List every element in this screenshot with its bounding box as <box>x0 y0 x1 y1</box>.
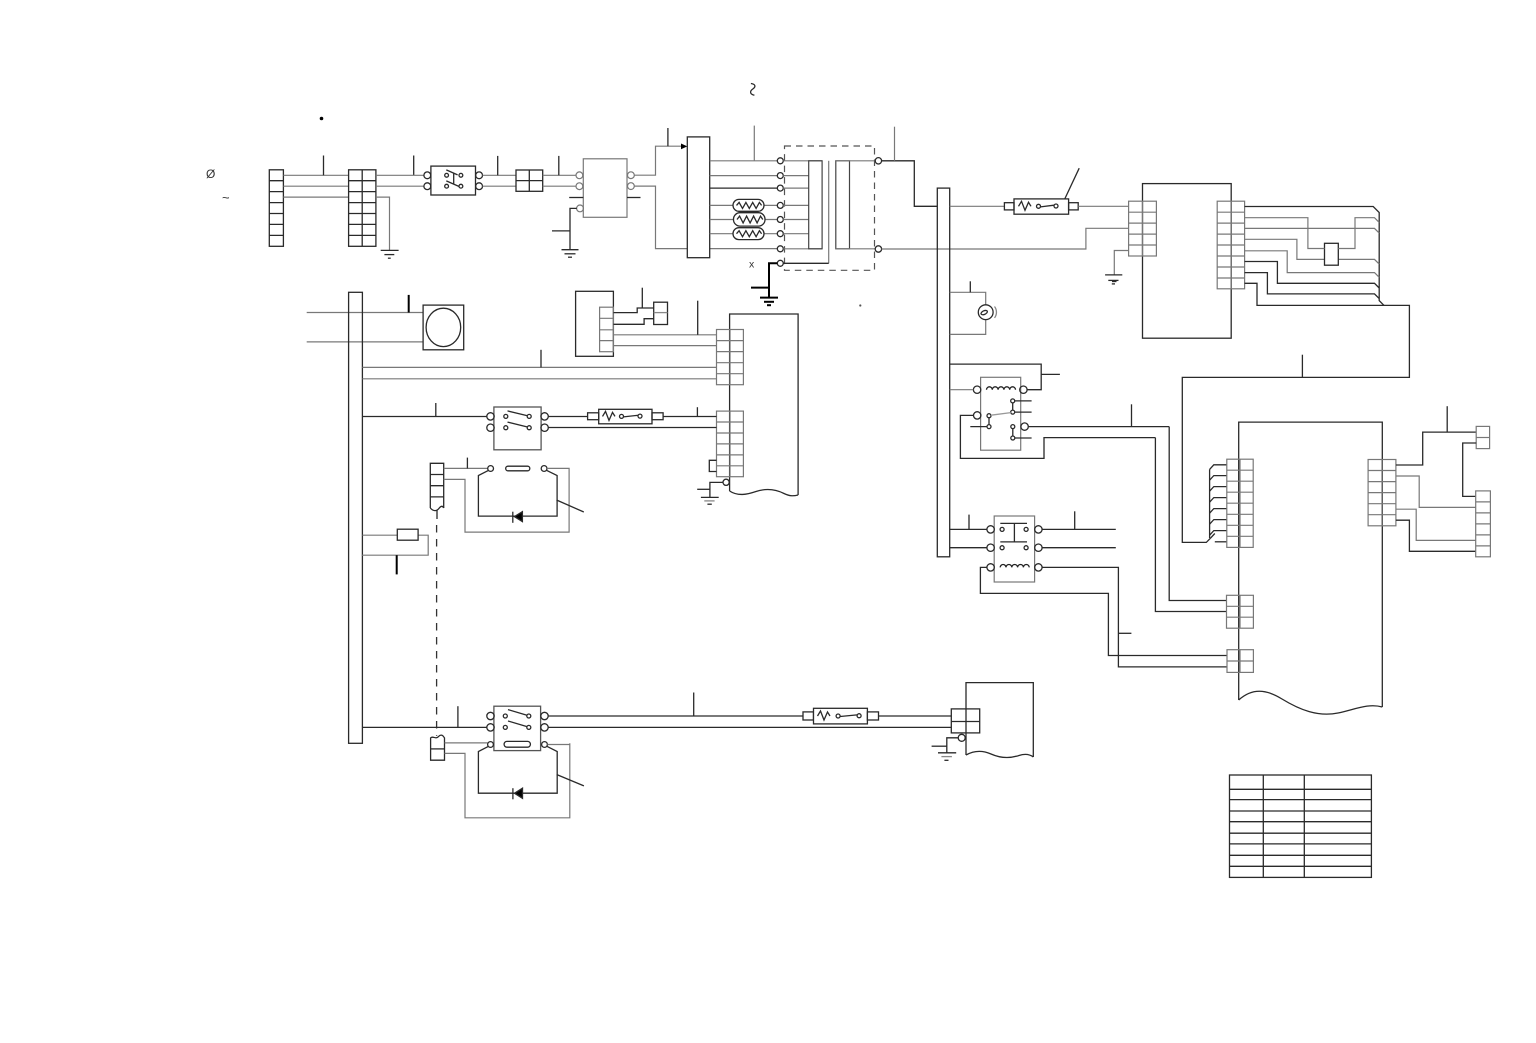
B5 lower strip LS5 <box>717 411 744 477</box>
stub tick <box>894 127 896 161</box>
wire TS2 to ground <box>376 197 390 250</box>
dash mark <box>1112 281 1117 283</box>
upper-left unit B6 <box>576 291 614 356</box>
wire bus to K1 coil <box>950 389 974 391</box>
wire RS4 row1 to connector C7 <box>1396 432 1476 465</box>
stub tick <box>466 458 468 469</box>
wire TS2 to switch S1 row2 <box>376 185 424 187</box>
B4 connector C6 <box>1227 650 1253 673</box>
wire secondary top to bus <box>882 161 938 207</box>
secondary winding bars <box>836 161 876 249</box>
wire bus to switch S2 <box>362 416 487 418</box>
tap stub <box>697 488 710 490</box>
clutch solenoid CL2 <box>478 741 557 793</box>
wire fuse to connector C9 <box>879 715 952 717</box>
stub tick <box>696 407 698 416</box>
strip tail <box>436 511 438 520</box>
bus bar BB2 <box>349 292 363 743</box>
wire filter to module B1 row1 <box>543 174 576 176</box>
stub tick <box>435 403 437 417</box>
connector C8 <box>1476 491 1491 557</box>
harness wire W1 <box>1245 207 1384 306</box>
actuation slant line <box>557 500 584 512</box>
heater resistor H1 <box>733 199 764 211</box>
tap stub <box>932 745 947 747</box>
dark row wire <box>710 187 778 189</box>
wire S3 row2 to connector C9 <box>548 726 951 728</box>
page flag PF1 outline <box>966 683 1033 757</box>
wire B6 row1 to connector C10 <box>613 308 653 313</box>
transformer terminal board B2 <box>687 137 709 258</box>
stub tick <box>457 706 459 727</box>
B4 connector C5 <box>1227 595 1254 628</box>
ground symbol G2 <box>562 250 579 258</box>
tap stub <box>552 230 570 232</box>
K2 coil wire left to connector <box>980 567 1227 655</box>
wire K1 output down to connector C5 row1 <box>1169 427 1226 601</box>
ground symbol G4 <box>1105 275 1122 284</box>
stub tick <box>1131 404 1133 426</box>
wire S2 row2 to B5 strip row2 <box>548 427 716 429</box>
B5 upper strip US5 <box>717 330 744 385</box>
reference table <box>1230 775 1372 877</box>
long wire bus to B5 strip row1 <box>362 366 716 368</box>
wire B1 pin to ground G2 <box>570 208 577 249</box>
heater resistor H2 <box>734 213 766 226</box>
K2 contact output row1 <box>1042 528 1116 530</box>
relay K2 contacts <box>987 523 1042 551</box>
jumper body <box>397 529 418 540</box>
wire RS4 row6 to C8 row6 <box>1396 520 1476 551</box>
bottom feed wire <box>362 726 487 728</box>
indicator lamp LP1 <box>978 305 996 320</box>
squiggle mark <box>751 84 755 96</box>
wire bus to breaker <box>950 205 1005 207</box>
junction dot <box>320 117 324 121</box>
relay K1 output wire <box>1028 426 1169 428</box>
B3 right connector strip <box>1217 201 1244 289</box>
harness wire W4 <box>1245 239 1380 264</box>
wire K1 return down to connector C5 row2 <box>1155 438 1226 612</box>
svg-text:x: x <box>749 259 755 271</box>
wire TS1 to TS2 row3 <box>283 196 348 198</box>
relay K1 contacts <box>970 399 1031 440</box>
terminal strip TS1 <box>269 170 283 247</box>
secondary row wires <box>710 161 778 234</box>
line filter FL1 <box>516 170 543 191</box>
wire bus to K2 contact row2 <box>950 547 987 549</box>
motor M1 <box>423 305 464 350</box>
secondary pin circles <box>875 158 881 164</box>
CL1 return loop <box>444 468 569 532</box>
main board B4 outline <box>1239 422 1383 707</box>
stub tick <box>497 156 499 175</box>
terminal strip TS2 <box>349 170 376 247</box>
stub tick <box>641 288 643 308</box>
svg-text:Ø: Ø <box>206 167 215 181</box>
switch S2 <box>487 407 549 450</box>
wire bus to K2 contact row1 <box>950 528 987 530</box>
wire secondary bottom to block B3 <box>882 228 1129 249</box>
power supply block B3 <box>1143 184 1232 339</box>
wire pin to ground G5 <box>710 482 723 497</box>
connector C7 <box>1476 426 1489 448</box>
wire TS1 to TS2 row2 <box>283 185 348 187</box>
wire x-pin to shield <box>783 262 828 264</box>
harness return path <box>1182 305 1409 542</box>
relay K1 feed wire <box>950 364 1041 390</box>
tap stub <box>1118 632 1131 634</box>
harness wire W7 <box>1245 273 1380 299</box>
flyback diode D2 <box>513 788 523 799</box>
B4 left connector strip LS4 <box>1227 459 1253 547</box>
wire S3 to fuse F3 <box>548 715 803 717</box>
relay K2 box <box>994 516 1034 582</box>
stub tick <box>969 281 971 292</box>
indicator lamp circuit wire <box>950 292 986 334</box>
board B4 torn bottom edge <box>1239 691 1383 714</box>
fuse F2 <box>588 409 664 424</box>
harness wire W5 <box>1245 251 1380 277</box>
harness wire W6 <box>1245 262 1380 289</box>
relay K2 coil <box>987 564 1042 571</box>
wire filter to module B1 row2 <box>543 185 576 187</box>
wire S2 to fuse F2 <box>548 416 587 418</box>
stub tick on row1 right <box>413 156 415 176</box>
wire RS4 row5 to C8 row5 <box>1396 509 1476 540</box>
wire stub row2 through bus <box>307 341 423 343</box>
wire strip to ground G4 <box>1114 251 1128 275</box>
switch S3 <box>487 706 548 750</box>
connector C10 <box>654 302 668 324</box>
stub tick on row1 <box>323 156 325 176</box>
circuit breaker CB1 <box>1004 168 1079 214</box>
pin stub right <box>627 197 641 199</box>
stub tick <box>693 693 695 717</box>
harness wire W3 <box>1245 228 1380 233</box>
ground symbol G6 <box>938 753 956 761</box>
wire S1 to filter row1 <box>483 174 517 176</box>
wire TS4 row1 to clutch CL2 <box>445 742 488 744</box>
ground symbol G3 <box>760 298 778 306</box>
B4 right connector strip RS4 <box>1368 460 1396 526</box>
primary winding bars <box>783 161 822 249</box>
tap stub <box>751 287 769 289</box>
wire B6 row2 to connector C10 <box>613 319 653 325</box>
harness wire W8 <box>1245 283 1384 305</box>
tap stub <box>1041 373 1060 375</box>
page flag torn edge <box>966 751 1033 757</box>
stub tick <box>558 156 560 175</box>
heater resistor H3 <box>733 228 764 240</box>
tall stub tick <box>697 301 699 335</box>
stub tick <box>396 555 398 574</box>
terminal block TS4 <box>431 735 445 760</box>
stub tick <box>667 128 669 146</box>
stub tick <box>408 295 410 313</box>
B5 torn bottom edge <box>730 490 799 496</box>
actuation slant line <box>557 775 584 786</box>
ground symbol G5 <box>701 497 719 504</box>
wire B6 row3 to B5 strip <box>613 334 716 336</box>
transformer pin circles <box>777 158 783 266</box>
wire x-pin to ground <box>769 263 777 297</box>
wire breaker to B3 <box>1078 205 1128 207</box>
wire TS3 row1 to clutch CL1 <box>444 467 488 469</box>
dot mark <box>859 304 861 306</box>
dashed mechanical link <box>436 525 438 736</box>
stub tick <box>968 515 970 530</box>
switch S1 (DPST mains switch) <box>424 166 483 195</box>
wire B1 to transformer primary top <box>634 146 681 175</box>
K2 coil wire right to connector <box>1042 567 1227 667</box>
pin stub left <box>569 197 583 199</box>
B6 connector strip <box>600 307 614 352</box>
pin circle below strip <box>723 479 729 485</box>
arrow head <box>681 144 687 150</box>
wire B6 row4 to B5 strip <box>613 345 716 347</box>
relay K1 coil <box>973 386 1027 393</box>
keying tab <box>709 460 716 471</box>
electrostatic shield line <box>828 161 830 263</box>
stub tick <box>540 350 542 368</box>
B3 left connector strip <box>1129 201 1157 256</box>
wire B1 to transformer primary bottom <box>634 186 777 249</box>
ground symbol G1 <box>381 250 399 258</box>
shield dashed box <box>785 146 875 270</box>
relay K1 common return path <box>960 415 1155 458</box>
wire stub row1 through bus <box>307 312 423 314</box>
connector C9 <box>951 709 979 733</box>
pin circle <box>958 734 965 741</box>
CL2 return loop <box>445 743 570 818</box>
wire TS2 to switch S1 row1 <box>376 174 424 176</box>
engine control block B5 <box>730 314 799 495</box>
terminal strip TS3 <box>430 463 443 510</box>
svg-text:~: ~ <box>222 190 230 205</box>
clutch solenoid CL1 <box>478 466 557 516</box>
stub tick <box>1074 511 1076 529</box>
inline component SR1 <box>1325 243 1339 265</box>
stub tick <box>1301 355 1303 378</box>
wire S1 to filter row2 <box>483 185 517 187</box>
wire RS4 row2 to C8 row2 <box>1396 476 1476 507</box>
harness wire W2 <box>1245 218 1380 249</box>
K2 contact output row2 <box>1042 547 1116 549</box>
bus bar BB1 <box>937 188 949 557</box>
flyback diode D1 <box>513 512 523 523</box>
jumper loop component SR2 <box>362 535 428 555</box>
wire C7 row2 to connector C8 row1 <box>1463 443 1477 496</box>
wire pin to ground G6 <box>947 738 958 753</box>
fuse F3 <box>803 708 879 724</box>
stub tick above row1 <box>753 126 755 161</box>
wire TS1 to TS2 row1 <box>283 174 348 176</box>
stub tick <box>1446 406 1448 432</box>
relay K1 box <box>981 377 1021 450</box>
wire fuse to B5 strip row1 <box>663 416 716 418</box>
harness fan-in chamfers <box>1210 465 1227 542</box>
module B1 (noise filter unit) <box>576 159 634 218</box>
long wire bus to B5 strip row2 <box>362 378 716 380</box>
